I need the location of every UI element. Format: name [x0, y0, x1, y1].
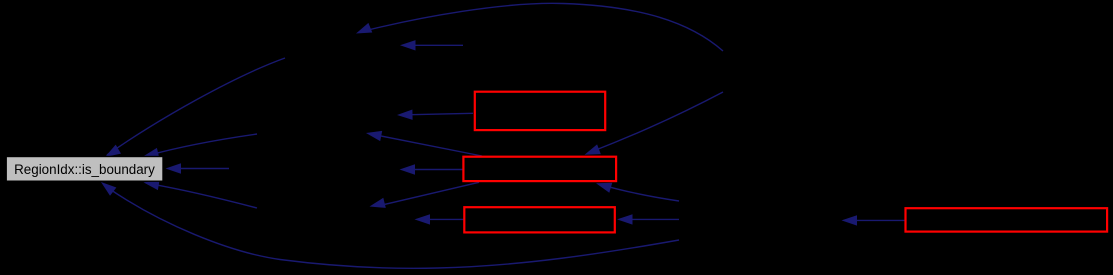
svg-text:RegionIdx::is_boundary: RegionIdx::is_boundary	[14, 162, 155, 177]
